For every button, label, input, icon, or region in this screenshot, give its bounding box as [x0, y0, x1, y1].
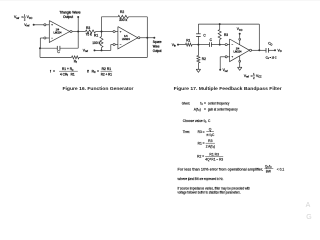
svg-text:BW: BW [266, 169, 271, 173]
svg-text:R1 − R3: R1 − R3 [211, 157, 223, 161]
svg-text:if: if [87, 69, 89, 73]
svg-text:< 0.1: < 0.1 [277, 168, 285, 172]
svg-text:Figure 17. Multiple Feedback B: Figure 17. Multiple Feedback Bandpass Fi… [174, 86, 282, 91]
svg-text:Then:: Then: [183, 130, 190, 134]
svg-text:Figure 16. Function Generator: Figure 16. Function Generator [63, 86, 134, 91]
svg-text:=: = [204, 107, 206, 111]
svg-text:G: G [306, 214, 311, 221]
svg-text:75 k: 75 k [86, 33, 93, 37]
svg-text:Vref: Vref [223, 68, 228, 73]
svg-text:VCC: VCC [237, 27, 243, 32]
svg-text:and BW are expressed in Hz.: and BW are expressed in Hz. [190, 177, 224, 181]
svg-text:Vref: Vref [14, 15, 19, 20]
svg-text:R3: R3 [224, 33, 228, 37]
svg-text:LM324: LM324 [234, 49, 242, 53]
svg-text:f: f [50, 69, 51, 73]
svg-text:=: = [203, 142, 205, 146]
svg-text:A: A [306, 202, 311, 209]
svg-text:Given:: Given: [182, 102, 190, 106]
svg-text:=: = [97, 69, 99, 73]
svg-text:): ) [214, 144, 215, 148]
svg-text:Vref: Vref [83, 49, 88, 54]
svg-text:LM324: LM324 [122, 37, 130, 41]
svg-text:R1: R1 [71, 72, 75, 76]
svg-text:R2: R2 [202, 57, 206, 61]
svg-text:R3: R3 [198, 130, 202, 134]
svg-text:= 10 C: = 10 C [270, 55, 278, 59]
svg-text:Choose value f: Choose value f [183, 119, 205, 123]
svg-text:For less than 10% error from o: For less than 10% error from operational… [178, 168, 264, 172]
svg-text:center frequency: center frequency [208, 102, 230, 106]
svg-text:R2 R1: R2 R1 [102, 67, 112, 71]
svg-text:Output: Output [63, 15, 73, 19]
svg-text:=: = [203, 130, 205, 134]
svg-text:Output: Output [153, 49, 162, 53]
svg-text:VCC: VCC [256, 74, 262, 79]
svg-text:4 CRf: 4 CRf [60, 72, 68, 77]
svg-text:R2: R2 [120, 10, 124, 14]
svg-text:300 k: 300 k [119, 18, 127, 22]
svg-text:=: = [53, 69, 55, 73]
svg-text:, C: , C [206, 119, 211, 123]
svg-text:R2: R2 [197, 155, 201, 159]
svg-text:=: = [204, 102, 206, 106]
svg-text:): ) [200, 107, 201, 111]
svg-text:R1: R1 [186, 38, 190, 42]
svg-text:Vin: Vin [172, 43, 177, 48]
svg-text:VCC: VCC [27, 15, 33, 20]
svg-text:LM324: LM324 [53, 31, 61, 35]
svg-text:Vref: Vref [244, 74, 249, 79]
svg-text:R1: R1 [198, 142, 202, 146]
svg-text:R1: R1 [94, 33, 98, 37]
svg-text:Triangle Wave: Triangle Wave [59, 11, 80, 15]
svg-text:R3: R3 [86, 26, 90, 30]
svg-text:gain at center frequency: gain at center frequency [208, 107, 238, 111]
svg-text:voltage follower buffer to sta: voltage follower buffer to stabilize fil… [178, 191, 241, 195]
svg-text:Vref: Vref [24, 23, 29, 28]
svg-text:100 k: 100 k [92, 41, 100, 45]
svg-text:R3: R3 [208, 139, 212, 143]
svg-text:R2 + R1: R2 + R1 [101, 72, 112, 76]
svg-text:2 A(f: 2 A(f [206, 144, 213, 148]
svg-text:Q: Q [209, 128, 212, 132]
svg-text:VO: VO [278, 49, 282, 54]
svg-text:R1 R3: R1 R3 [209, 152, 219, 156]
svg-text:C: C [94, 71, 96, 74]
svg-text:=: = [202, 155, 204, 159]
